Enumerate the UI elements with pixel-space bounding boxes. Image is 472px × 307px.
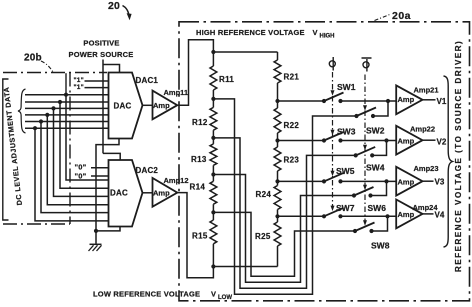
svg-text:Amp21: Amp21 xyxy=(414,86,439,95)
svg-text:R24: R24 xyxy=(256,190,272,199)
svg-text:SW7: SW7 xyxy=(336,203,355,213)
switch SW8 xyxy=(353,229,357,233)
svg-text:R23: R23 xyxy=(284,156,300,165)
clock phi symbol xyxy=(329,61,335,67)
resistor R22 xyxy=(277,101,279,108)
wire SW4 riser xyxy=(372,141,386,156)
op-amp Amp11 xyxy=(143,104,153,106)
svg-text:SW5: SW5 xyxy=(336,166,355,176)
wire Amp12 output to ladder bottom xyxy=(177,193,213,278)
wire R22/R23 tap to SW3 xyxy=(278,140,325,142)
svg-text:R25: R25 xyxy=(255,232,271,241)
data bus wires to DAC1 xyxy=(25,94,109,96)
op-amp Amp21 with output V1 xyxy=(396,85,422,114)
op-amp Amp22 with output V2 xyxy=(396,126,422,155)
svg-text:Amp12: Amp12 xyxy=(164,176,189,185)
wire SW3 to Amp22 xyxy=(341,140,397,142)
wire ladder top rail xyxy=(213,51,277,53)
wire ladder bottom rail xyxy=(213,266,277,268)
resistor R13 xyxy=(212,138,214,144)
svg-text:20: 20 xyxy=(108,0,120,12)
DC LEVEL ADJUSTMENT DATA label bracket xyxy=(3,79,9,220)
node tap R14/R15 loop to SW8 xyxy=(213,212,355,276)
resistor R12 xyxy=(212,99,214,108)
svg-text:V2: V2 xyxy=(437,137,447,146)
svg-text:V: V xyxy=(211,290,216,299)
wire SW1 to Amp21 xyxy=(341,100,397,102)
switch SW6 xyxy=(352,193,356,197)
svg-text:POWER SOURCE: POWER SOURCE xyxy=(69,50,134,59)
svg-text:DAC: DAC xyxy=(114,102,132,111)
svg-text:SW6: SW6 xyxy=(368,203,387,213)
resistor R25 xyxy=(277,216,279,222)
svg-text:20a: 20a xyxy=(392,10,411,22)
svg-text:"0": "0" xyxy=(75,172,87,181)
svg-text:R13: R13 xyxy=(191,155,207,164)
svg-text:Amp23: Amp23 xyxy=(414,164,439,173)
data bus junction dots xyxy=(64,93,68,97)
wire R24/R25 tap to SW7 xyxy=(278,215,325,217)
resistor R11 xyxy=(212,52,214,66)
svg-text:Amp11: Amp11 xyxy=(164,88,189,97)
node tap R12/R13 loop to SW4 xyxy=(213,138,355,288)
resistor R23 xyxy=(277,141,279,148)
svg-text:V3: V3 xyxy=(435,178,445,187)
svg-text:SW3: SW3 xyxy=(337,127,356,137)
svg-text:Amp: Amp xyxy=(398,137,415,146)
wire R21/R22 tap to SW1 xyxy=(278,100,325,102)
svg-text:V4: V4 xyxy=(435,211,445,220)
switch SW5 xyxy=(322,179,326,183)
dash-dot boundary box 20b xyxy=(3,72,107,74)
op-amp Amp24 with output V4 xyxy=(396,200,422,229)
svg-text:HIGH REFERENCE VOLTAGE: HIGH REFERENCE VOLTAGE xyxy=(196,28,305,37)
DAC U1 (DAC1) symbol xyxy=(109,73,143,139)
switch SW1 xyxy=(322,99,326,103)
output group brace xyxy=(444,76,453,247)
wire top tap riser xyxy=(65,73,67,95)
ground rail from DAC bottoms xyxy=(96,139,119,244)
wire SW8 riser xyxy=(372,216,388,231)
dash-dot boundary box 20a xyxy=(179,22,470,301)
wire SW6 riser xyxy=(371,181,387,195)
svg-text:R12: R12 xyxy=(192,118,208,127)
svg-text:V1: V1 xyxy=(437,97,447,106)
svg-text:POSITIVE: POSITIVE xyxy=(83,39,119,48)
svg-text:SW4: SW4 xyxy=(366,163,385,173)
phi control line xyxy=(332,72,334,208)
svg-text:SW8: SW8 xyxy=(371,241,390,251)
resistor R21 xyxy=(277,52,279,60)
node tap R11/R12 loop to SW2 xyxy=(213,99,356,294)
ground xyxy=(90,243,102,245)
svg-text:SW2: SW2 xyxy=(366,126,385,136)
resistor R15 xyxy=(212,212,214,220)
svg-text:20b: 20b xyxy=(24,53,42,64)
wire R23/R24 tap to SW5 xyxy=(278,180,325,182)
svg-text:Amp: Amp xyxy=(398,95,415,104)
svg-text:LOW REFERENCE VOLTAGE: LOW REFERENCE VOLTAGE xyxy=(93,290,200,299)
data bundle brace xyxy=(18,89,26,133)
svg-text:Amp: Amp xyxy=(153,188,170,197)
wire SW2 riser xyxy=(373,101,388,116)
svg-text:R14: R14 xyxy=(190,183,206,192)
svg-text:R22: R22 xyxy=(284,121,300,130)
positive power rail xyxy=(102,60,104,154)
svg-text:HIGH: HIGH xyxy=(320,34,335,40)
switch SW2 xyxy=(354,114,358,118)
clock phi-bar symbol xyxy=(363,62,369,68)
svg-text:DAC: DAC xyxy=(110,189,128,198)
svg-text:V: V xyxy=(313,28,318,37)
node tap R13/R14 loop to SW6 xyxy=(213,175,354,283)
switch SW3 xyxy=(322,138,326,142)
svg-text:"1": "1" xyxy=(74,84,84,91)
switch SW7 xyxy=(322,214,326,218)
resistor R14 xyxy=(212,175,214,182)
left ladder tap junction dots xyxy=(211,97,215,101)
op-amp Amp23 with output V3 xyxy=(396,167,422,196)
right ladder tap junction dots xyxy=(275,99,279,103)
wire SW5 to Amp23 xyxy=(341,180,397,182)
svg-text:Amp: Amp xyxy=(398,177,415,186)
svg-text:R15: R15 xyxy=(192,232,208,241)
svg-text:DAC2: DAC2 xyxy=(136,166,159,175)
svg-text:DAC1: DAC1 xyxy=(136,76,159,85)
resistor R24 xyxy=(277,181,279,185)
DAC U2 (DAC2) symbol xyxy=(109,160,143,227)
svg-text:SW1: SW1 xyxy=(337,82,356,92)
switch SW4 xyxy=(354,153,358,157)
wire Amp11 output to ladder top xyxy=(177,40,213,106)
svg-text:LOW: LOW xyxy=(218,295,232,301)
op-amp Amp12 xyxy=(143,192,153,194)
wire SW7 to Amp24 xyxy=(341,215,397,217)
phi-bar control line xyxy=(364,75,366,224)
svg-text:"0": "0" xyxy=(75,163,87,172)
svg-text:REFERENCE VOLTAGE (TO SOURCE D: REFERENCE VOLTAGE (TO SOURCE DRIVER) xyxy=(454,40,463,272)
svg-text:Amp: Amp xyxy=(153,101,170,110)
svg-text:Amp22: Amp22 xyxy=(410,125,435,134)
svg-text:R11: R11 xyxy=(219,75,234,84)
svg-text:R21: R21 xyxy=(284,73,300,82)
data bus fan wires to DAC2 xyxy=(66,95,109,180)
